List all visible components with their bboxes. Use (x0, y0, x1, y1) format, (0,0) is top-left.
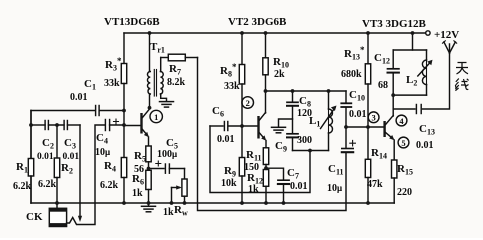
wire: left input column (R1 branch) (30, 111, 32, 204)
resistor R5 (146, 146, 151, 170)
wire: VT3 collector to C13 (393, 108, 415, 110)
transistor VT2 (257, 91, 266, 148)
svg-text:6.2k: 6.2k (38, 179, 57, 190)
capacitor C10 (341, 91, 351, 127)
svg-text:Tr1: Tr1 (150, 41, 165, 55)
capacitor C11 (electrolytic 10u) (342, 127, 356, 152)
resistor R6 (146, 170, 151, 203)
svg-text:0.01: 0.01 (290, 181, 308, 192)
svg-text:C3: C3 (64, 137, 76, 151)
svg-text:R11: R11 (246, 149, 262, 163)
svg-text:0.01: 0.01 (349, 109, 367, 120)
resistor R1 (28, 111, 33, 204)
svg-text:VT3 3DG12B: VT3 3DG12B (362, 18, 427, 30)
svg-text:8.2k: 8.2k (167, 77, 186, 88)
svg-text:R3*: R3* (105, 56, 122, 73)
svg-text:C13: C13 (419, 123, 435, 137)
circle marker 1 for VT1 (150, 110, 162, 122)
svg-text:C12: C12 (374, 52, 390, 66)
transformer Tr1 secondary winding (160, 58, 166, 102)
capacitor C13 (416, 105, 421, 114)
wire: VT3 base wire (346, 126, 383, 128)
svg-text:+12V: +12V (434, 29, 459, 41)
wire: tank bottom wire C9/L1 (293, 150, 329, 152)
svg-text:R6: R6 (132, 173, 144, 187)
svg-text:10μ: 10μ (95, 147, 110, 158)
svg-text:33k: 33k (104, 78, 120, 89)
svg-text:R9: R9 (224, 165, 236, 179)
svg-text:0.01: 0.01 (37, 152, 54, 162)
wire: VT1 base lead (124, 125, 140, 127)
transistor VT1 (140, 109, 149, 146)
svg-text:3: 3 (371, 113, 375, 123)
wire: tank top (393, 49, 426, 51)
wire: RC network second wire with C2 C3 (31, 124, 45, 126)
circle marker 2 for VT2 (242, 97, 254, 109)
resistor R12 (263, 170, 268, 204)
wire: supply drop to tank top (412, 33, 414, 50)
svg-text:R15: R15 (397, 163, 413, 177)
circle marker 3 for VT3 (368, 112, 379, 123)
svg-text:33k: 33k (224, 81, 240, 92)
svg-text:300: 300 (297, 135, 312, 146)
svg-text:C1: C1 (84, 78, 96, 92)
capacitor C12 (388, 50, 399, 95)
svg-text:5: 5 (401, 138, 405, 148)
svg-text:0.01: 0.01 (63, 152, 80, 162)
svg-text:10k: 10k (221, 178, 237, 189)
svg-text:R5: R5 (134, 150, 146, 164)
resistor R8 (239, 33, 244, 126)
antenna chinese label xian (wire) (455, 79, 468, 91)
ground tap between C8 and C9 (272, 119, 293, 133)
circle marker 5 emitter pin (398, 137, 409, 148)
wire: arrow drop from C3 wire onto CK lead (78, 125, 82, 222)
antenna chinese label tian (sky) (456, 63, 468, 75)
svg-text:1k: 1k (248, 184, 259, 195)
capacitor C7 (278, 180, 289, 203)
resistor R10 (263, 33, 268, 91)
svg-text:R10: R10 (273, 56, 289, 70)
inductor L1 (adjustable) (321, 91, 337, 151)
svg-text:C11: C11 (328, 163, 344, 177)
svg-text:1k: 1k (163, 207, 174, 218)
svg-text:68: 68 (378, 80, 388, 91)
resistor R4 (121, 125, 126, 203)
svg-text:220: 220 (397, 187, 412, 198)
svg-text:680k: 680k (341, 69, 362, 80)
wire: VT2 collector bus (266, 90, 347, 92)
transformer Tr1 primary winding (147, 33, 150, 108)
svg-text:R14: R14 (371, 147, 387, 161)
svg-text:6.2k: 6.2k (13, 181, 32, 192)
svg-text:VT13DG6B: VT13DG6B (104, 16, 160, 28)
svg-text:C6: C6 (212, 105, 224, 119)
svg-text:2: 2 (246, 98, 250, 108)
svg-text:L1: L1 (309, 115, 320, 129)
antenna symbol (443, 41, 457, 53)
resistor R9 (239, 126, 244, 203)
ground below Tr1 secondary (160, 102, 174, 108)
capacitor C6 (224, 122, 227, 131)
resistor R14 (365, 127, 370, 203)
capacitor C9 (287, 134, 298, 151)
svg-text:CK: CK (26, 211, 43, 223)
transistor VT3 (383, 95, 394, 160)
capacitor C8 (287, 91, 298, 133)
wire: zigzag lead from CK to C4 branch (67, 125, 105, 225)
transformer Tr1 core (154, 70, 156, 97)
svg-text:R2: R2 (61, 162, 73, 176)
svg-text:R7: R7 (169, 63, 181, 77)
wire: VT2 base wire with C6 (210, 125, 223, 127)
svg-text:C9: C9 (275, 140, 287, 154)
svg-text:0.01: 0.01 (416, 140, 434, 151)
wire: R11/R12 junction to C7 (266, 168, 284, 179)
wire: audio feed line from R7 down and across bottom to C11 (198, 58, 347, 211)
wire: bottom ground rail (31, 202, 394, 204)
potentiometer Rw (172, 169, 188, 204)
svg-text:0.01: 0.01 (70, 92, 88, 103)
svg-text:4: 4 (399, 116, 404, 126)
svg-text:C7: C7 (287, 167, 299, 181)
capacitor C1 (96, 106, 100, 116)
resistor R3 (121, 33, 126, 125)
svg-text:2k: 2k (274, 69, 285, 80)
svg-text:C8: C8 (299, 95, 311, 109)
svg-text:C10: C10 (349, 89, 365, 103)
svg-text:100μ: 100μ (157, 149, 177, 160)
svg-text:6.2k: 6.2k (100, 180, 119, 191)
wire: top-left signal wire to C1 (31, 110, 95, 112)
inductor L2 (adjustable) (418, 50, 433, 95)
wire: tank bottom (393, 94, 426, 96)
wire: C13 to antenna (423, 53, 450, 109)
ground symbol below rail at R6 (142, 203, 156, 212)
wire: +12V top supply rail (124, 32, 426, 34)
+12V terminal (426, 31, 430, 35)
svg-text:C4: C4 (96, 132, 108, 146)
svg-text:L2: L2 (406, 74, 417, 88)
microphone CK box (49, 208, 66, 226)
svg-text:VT2 3DG6B: VT2 3DG6B (228, 16, 287, 28)
svg-text:R13*: R13* (344, 45, 365, 62)
resistor R7 (161, 54, 198, 61)
svg-text:47k: 47k (367, 179, 383, 190)
svg-text:R4: R4 (104, 160, 116, 174)
capacitor C3 (64, 121, 67, 130)
svg-text:1k: 1k (132, 188, 143, 199)
svg-text:R8*: R8* (220, 62, 237, 79)
circle marker 4 collector pin (396, 115, 407, 126)
svg-text:Rw: Rw (174, 204, 188, 218)
capacitor C5 (electrolytic 100u) (149, 161, 185, 173)
resistor R15 (392, 160, 397, 203)
capacitor C2 (45, 121, 48, 130)
text labels (104, 16, 459, 41)
resistor R11 (263, 148, 268, 170)
resistor R2 (54, 125, 59, 209)
svg-text:10μ: 10μ (327, 183, 342, 194)
svg-text:0.01: 0.01 (217, 134, 235, 145)
resistor R13 (365, 33, 370, 127)
svg-text:1: 1 (154, 112, 158, 122)
svg-text:R1: R1 (16, 161, 28, 175)
capacitor C4 (electrolytic 10u) (105, 119, 124, 131)
svg-text:C2: C2 (42, 137, 54, 151)
wire: feedback line from C6 down and across to tank bottom (210, 126, 310, 193)
